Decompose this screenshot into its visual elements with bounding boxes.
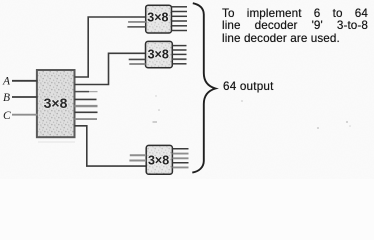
wire U1 output 5 stub (75, 111, 98, 113)
wire U1 output 1 to U3 (75, 53, 146, 84)
wire input A (12, 80, 38, 82)
wire U3 output 2 (172, 53, 186, 55)
svg-text:C: C (3, 110, 11, 122)
wire U2 output 1 (172, 11, 188, 13)
wire U3 output 4 (172, 63, 186, 65)
wire U3 input stub 1 (129, 58, 146, 60)
svg-text:B: B (3, 92, 10, 104)
wire U3 input stub 2 (129, 63, 145, 65)
wire U1 output 3 stub (75, 98, 97, 100)
wire U4 output 3 (172, 162, 188, 164)
wire U2 input stub 2 (127, 26, 145, 28)
wire U1 output 7 to U4 (75, 126, 147, 166)
paragraph line 1 (222, 8, 368, 21)
wire U3 output 0 (172, 45, 186, 47)
wire U4 output 0 (172, 148, 188, 150)
wire U2 output 5 (172, 30, 188, 32)
wire U1 output 6 stub (75, 118, 98, 120)
wire U1 output 4 stub (75, 105, 98, 107)
wire input C (12, 114, 38, 116)
svg-text:3×8: 3×8 (44, 95, 68, 111)
svg-text:3×8: 3×8 (148, 48, 169, 62)
wire input B (12, 96, 38, 98)
wire U2 output 0 (172, 6, 188, 8)
wire U1 output 0 to U2 (75, 17, 146, 77)
brace (64 outputs) (192, 3, 215, 172)
wire U4 output 2 (172, 157, 188, 159)
ellipsis between U3 and U4 (153, 121, 158, 123)
svg-text:A: A (2, 76, 11, 88)
caption: 64 output (223, 81, 293, 94)
wire U4 output 4 (172, 166, 188, 168)
wire U1 output 2 stub (75, 91, 90, 93)
wire U4 output 1 (172, 153, 188, 155)
wire U3 output 3 (172, 58, 186, 60)
decoder U2 (top 3×8) (146, 5, 172, 33)
wire U2 output 4 (172, 25, 188, 27)
decoder U3 (middle 3×8) (146, 41, 173, 67)
svg-text:3×8: 3×8 (148, 154, 169, 168)
paragraph line 2 (222, 20, 368, 33)
decoder U1 (first-stage 3×8) (37, 70, 75, 142)
wire U3 output 1 (172, 49, 186, 51)
wire U2 input stub 1 (128, 21, 146, 23)
wire U4 input stub 1 (130, 154, 146, 156)
wire U2 output 3 (172, 20, 188, 22)
decoder U4 (bottom 3×8) (146, 145, 172, 174)
wire U2 output 2 (172, 15, 188, 17)
svg-text:3×8: 3×8 (147, 11, 168, 25)
wire U4 input stub 2 (129, 160, 146, 162)
paragraph line 3 (222, 33, 368, 46)
